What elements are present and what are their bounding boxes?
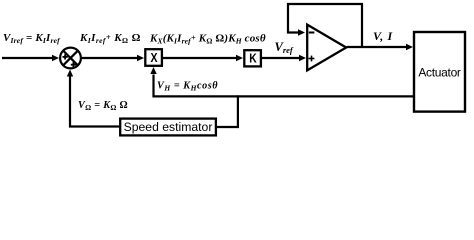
actuator box <box>414 32 465 112</box>
summing junction <box>60 48 81 69</box>
multiplier box X <box>145 49 162 66</box>
wire speed estimator to sum (V_O feedback) <box>70 77 119 127</box>
wire amp output to actuator <box>347 46 407 48</box>
wire X to K <box>163 57 237 59</box>
wire branch to speed estimator <box>217 95 238 127</box>
svg-text:X: X <box>151 51 159 65</box>
gain box K <box>244 50 261 66</box>
speed estimator box <box>120 119 216 136</box>
wire input V_Iref <box>2 57 53 59</box>
svg-text:Speed estimator: Speed estimator <box>124 120 213 134</box>
wire actuator to X (V_H feedback) <box>154 75 414 97</box>
wire K to amp, label V_ref <box>262 57 300 59</box>
feedback loop wire <box>288 4 362 47</box>
plus sign bottom <box>71 64 76 66</box>
svg-text:V,I: V,I <box>373 29 393 43</box>
wire sum to X <box>82 57 138 59</box>
plus sign left <box>63 56 68 58</box>
minus input mark <box>309 32 315 34</box>
svg-text:Actuator: Actuator <box>418 66 461 80</box>
plus input mark <box>309 58 315 60</box>
op-amp comparator <box>307 25 346 71</box>
svg-text:K: K <box>249 52 257 66</box>
